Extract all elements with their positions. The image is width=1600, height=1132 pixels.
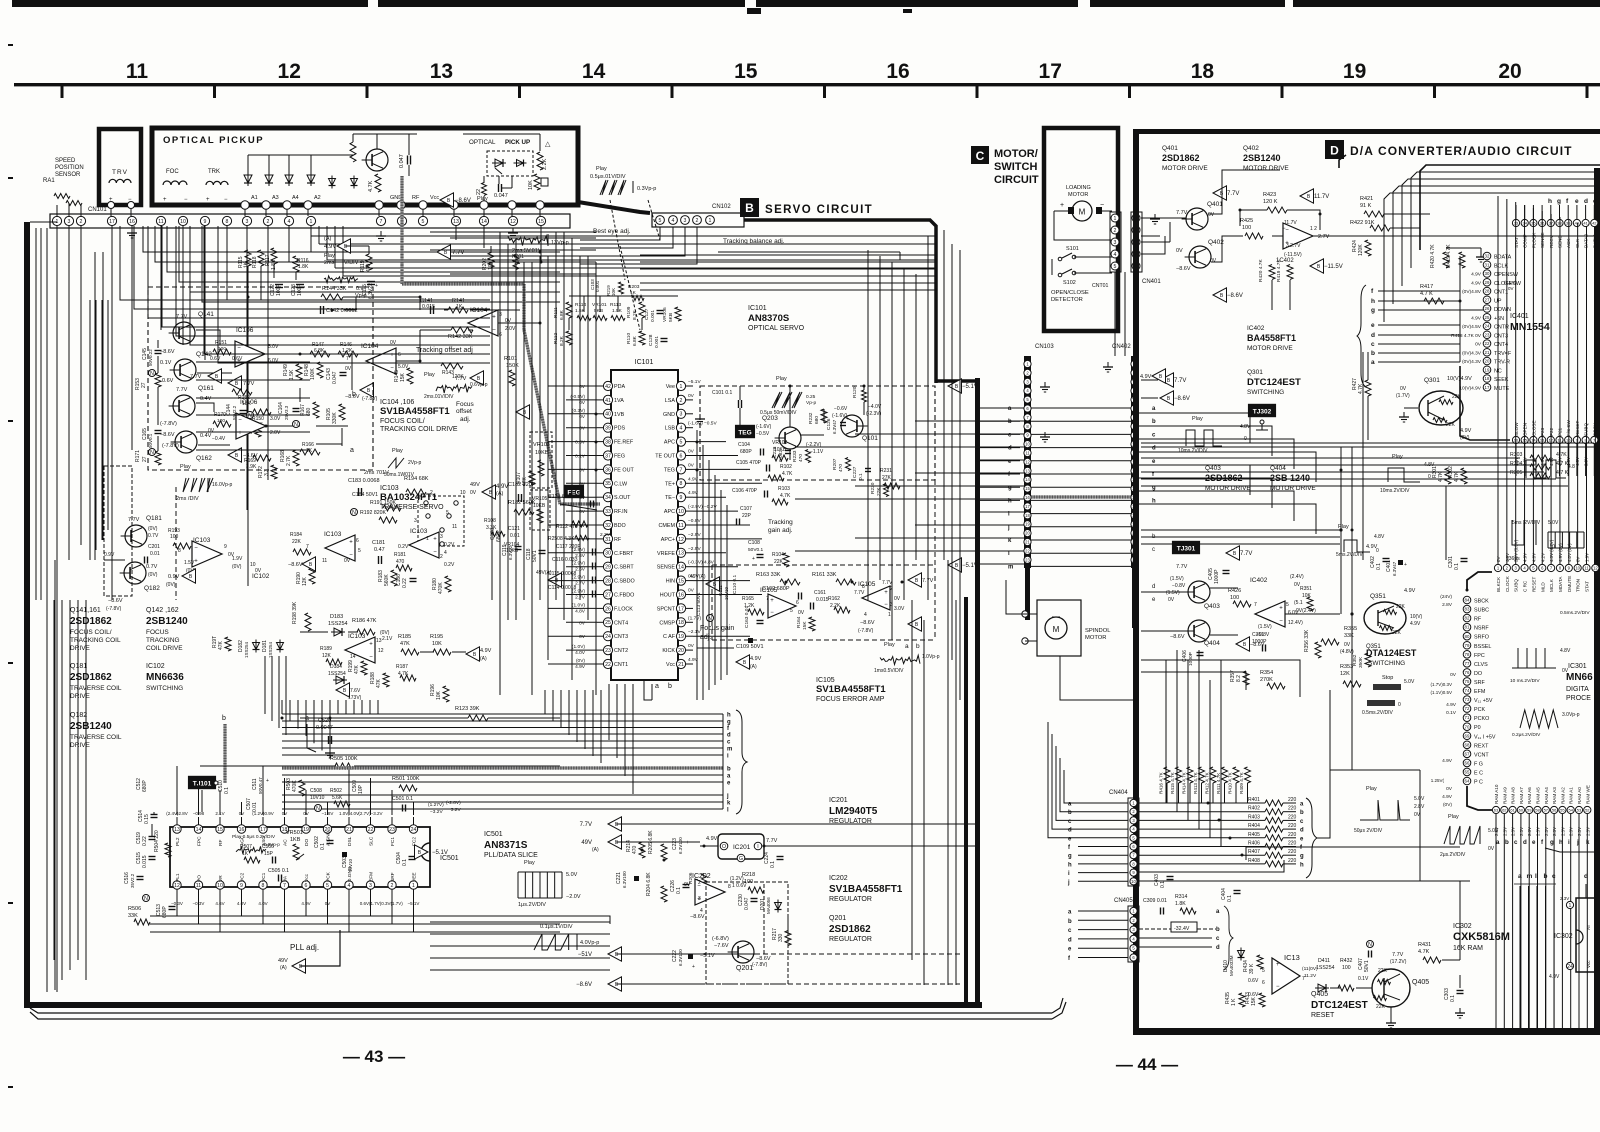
pin IC101-9 TE&#8722; [676, 493, 685, 502]
svg-text:R351: R351 [1300, 586, 1312, 592]
op-amp IC104-2 [468, 310, 498, 336]
svg-text:C501 0.1: C501 0.1 [392, 796, 413, 802]
wire [915, 274, 917, 560]
svg-text:7: 7 [380, 219, 383, 225]
wire [960, 823, 975, 825]
pin IC501-13 [173, 825, 181, 833]
svg-text:27K: 27K [882, 475, 892, 481]
wire [693, 441, 726, 443]
svg-text:(0V)4.3V: (0V)4.3V [1462, 350, 1482, 356]
pin IC101-22 CNT1 [603, 659, 612, 668]
wire [35, 228, 37, 600]
svg-text:10: 10 [460, 490, 466, 496]
wire [915, 472, 1024, 474]
pin CN101-9 [200, 216, 209, 225]
svg-text:0.001: 0.001 [650, 310, 656, 322]
svg-text:+: + [846, 416, 849, 422]
svg-text:10(V)4.9V: 10(V)4.9V [1459, 385, 1481, 391]
dashed line [175, 487, 177, 600]
wire [498, 176, 500, 184]
svg-text:KICK: KICK [662, 648, 675, 654]
svg-text:11: 11 [126, 60, 149, 83]
svg-text:3.3K: 3.3K [486, 525, 497, 531]
svg-text:1.9V: 1.9V [232, 556, 243, 562]
svg-text:7.7V: 7.7V [766, 838, 778, 844]
dashed net [763, 884, 765, 954]
svg-text:3.9K: 3.9K [246, 464, 257, 470]
pad [508, 201, 516, 209]
svg-text:N: N [144, 896, 148, 902]
diode [353, 176, 355, 189]
pin CN103-6 [1024, 405, 1031, 412]
pin CN103-18 [1024, 512, 1031, 519]
svg-text:12: 12 [510, 219, 516, 225]
svg-text:15: 15 [734, 60, 758, 83]
svg-text:Q182: Q182 [144, 585, 160, 592]
svg-text:−8.6V: −8.6V [1174, 396, 1190, 402]
flag 7.7V [908, 573, 922, 587]
wire [196, 449, 310, 451]
svg-text:7.7V: 7.7V [580, 822, 592, 828]
svg-text:560K: 560K [384, 574, 390, 586]
pin IC301-55 [1559, 806, 1566, 813]
svg-text:15K: 15K [802, 621, 808, 630]
svg-text:SPEED: SPEED [55, 158, 76, 164]
svg-text:PCK: PCK [1474, 707, 1485, 713]
wire [1515, 444, 1517, 476]
wire [241, 898, 243, 916]
label FEG tag [564, 485, 584, 498]
pin IC301-59 [1526, 806, 1533, 813]
contact [426, 514, 430, 518]
svg-text:SUBQ: SUBQ [1514, 579, 1519, 592]
wire [305, 700, 307, 736]
svg-text:TRV-R: TRV-R [1494, 360, 1510, 366]
wire [377, 700, 379, 714]
pin IC501-23 [388, 825, 396, 833]
svg-text:C117 220P: C117 220P [556, 544, 581, 550]
pin IC401-31 BCLK [1483, 261, 1491, 269]
svg-text:IC401: IC401 [1510, 313, 1529, 320]
svg-text:6: 6 [680, 453, 683, 459]
wire [1576, 444, 1578, 476]
pin CN404-6 [1130, 843, 1137, 850]
junction [696, 469, 699, 472]
svg-text:0V: 0V [894, 596, 901, 602]
wire [789, 386, 791, 427]
svg-text:4.9V: 4.9V [1442, 758, 1453, 764]
wire [176, 226, 490, 336]
svg-text:11: 11 [1584, 566, 1589, 571]
pin IC101-15 HIN [676, 576, 685, 585]
wire h [1078, 863, 1128, 865]
wire [587, 256, 589, 620]
svg-text:0.3Vp-p: 0.3Vp-p [637, 186, 656, 192]
pin IC301-71 PCKO [1463, 714, 1471, 722]
wire [1198, 649, 1200, 651]
wire [579, 256, 581, 600]
wire [342, 226, 344, 276]
pin IC101-35 C.LW [603, 479, 612, 488]
svg-text:(A): (A) [750, 664, 757, 670]
pin CN103-23 [1024, 556, 1031, 563]
shield wire [223, 724, 226, 783]
svg-text:M: M [1053, 625, 1060, 634]
wire [498, 322, 540, 324]
svg-text:470: 470 [798, 454, 804, 462]
pin IC501-3 [366, 881, 374, 889]
svg-text:R218: R218 [742, 872, 755, 878]
wire [200, 765, 336, 767]
wire [616, 684, 618, 758]
svg-text:RF: RF [218, 840, 224, 846]
svg-text:R425: R425 [1240, 218, 1253, 224]
svg-text:PCK: PCK [326, 871, 332, 882]
pin CN103-7 [1024, 414, 1031, 421]
svg-text:Q401: Q401 [1162, 145, 1178, 152]
svg-text:3: 3 [1114, 240, 1117, 246]
resistor R151 100 [213, 349, 231, 355]
svg-text:SBCK: SBCK [1474, 599, 1489, 605]
svg-text:Q403: Q403 [1205, 465, 1221, 472]
svg-text:1.5K: 1.5K [289, 369, 295, 380]
wire [470, 309, 520, 311]
junction [540, 261, 543, 264]
svg-text:0V: 0V [1176, 248, 1183, 254]
wire [1165, 659, 1167, 661]
svg-text:63: 63 [1494, 807, 1499, 812]
wire a [1031, 407, 1131, 409]
svg-text:2.8V: 2.8V [1442, 602, 1453, 608]
svg-text:R401: R401 [1248, 797, 1260, 803]
wire [693, 468, 750, 470]
pin IC301-9 [1565, 564, 1572, 571]
svg-text:Play: Play [1366, 786, 1377, 792]
wire [353, 700, 355, 714]
svg-text:Q301: Q301 [1424, 377, 1440, 384]
svg-text:Play: Play [180, 464, 191, 470]
transistor Q403 [1188, 581, 1210, 603]
svg-text:l: l [1595, 839, 1597, 846]
pin IC301-62 [1501, 806, 1508, 813]
svg-text:TEG: TEG [738, 429, 751, 436]
svg-text:67: 67 [1465, 751, 1470, 756]
svg-text:VR106: VR106 [662, 307, 668, 322]
pin CN103-16 [1024, 494, 1031, 501]
wire [592, 690, 594, 756]
svg-text:−: − [184, 197, 188, 203]
wire [539, 256, 541, 600]
svg-text:R413 4.7K: R413 4.7K [1193, 771, 1198, 794]
svg-text:19: 19 [1485, 367, 1490, 372]
wire [1524, 205, 1526, 530]
svg-text:55: 55 [1560, 807, 1565, 812]
svg-text:IC302: IC302 [1554, 933, 1573, 940]
wire [305, 898, 307, 916]
svg-text:−1.1V: −1.1V [810, 449, 824, 455]
junction [1218, 819, 1221, 822]
wire [281, 700, 283, 714]
pin CN402-14 [1131, 476, 1138, 483]
wire [321, 700, 323, 751]
svg-text:22K: 22K [774, 559, 784, 565]
wire [297, 700, 299, 729]
svg-text:14: 14 [196, 827, 202, 833]
svg-text:15: 15 [538, 219, 544, 225]
pin IC401-17 MUTE [1483, 383, 1491, 391]
pad [419, 201, 427, 209]
svg-text:MOTOR: MOTOR [1085, 635, 1106, 641]
transistor Q101 [841, 415, 863, 437]
svg-text:5: 5 [659, 218, 662, 224]
svg-text:HOUT: HOUT [660, 593, 676, 599]
wire [430, 267, 596, 269]
svg-text:50ms.1W01V: 50ms.1W01V [384, 472, 415, 478]
pin CN103-17 [1024, 503, 1031, 510]
wire [863, 386, 865, 390]
junction [1229, 837, 1232, 840]
junction [851, 581, 854, 584]
pin CN404-9 [1130, 869, 1137, 876]
wire [345, 700, 347, 714]
wire [334, 226, 336, 268]
wire [1390, 227, 1420, 229]
pin CN402-16 [1131, 494, 1138, 501]
svg-text:IC104 ,106: IC104 ,106 [380, 399, 414, 406]
svg-text:1.5K: 1.5K [612, 308, 623, 314]
svg-text:(A): (A) [480, 656, 487, 662]
junction [785, 581, 788, 584]
ground [699, 414, 701, 419]
svg-text:R407: R407 [1248, 849, 1260, 855]
svg-text:Q141: Q141 [198, 311, 214, 318]
svg-text:0V: 0V [470, 490, 477, 496]
wire [337, 700, 339, 714]
svg-text:C107: C107 [740, 506, 752, 512]
svg-text:b: b [1505, 839, 1509, 846]
svg-text:100: 100 [218, 346, 226, 352]
svg-text:0V: 0V [1446, 786, 1453, 792]
svg-text:IC302: IC302 [1453, 923, 1472, 930]
svg-text:(2.4V): (2.4V) [1290, 574, 1304, 580]
wire [430, 921, 610, 923]
resistor R119 470 [366, 254, 372, 270]
svg-text:10: 10 [1131, 879, 1136, 884]
svg-text:−5.1V: −5.1V [962, 384, 978, 390]
switch S102 [1062, 269, 1072, 274]
svg-text:0V: 0V [1488, 846, 1495, 852]
wire [1139, 854, 1265, 856]
svg-text:F G: F G [1474, 761, 1483, 767]
circled N [149, 370, 156, 377]
svg-text:0V: 0V [1475, 342, 1482, 348]
svg-text:0.5ms.2V/DIV: 0.5ms.2V/DIV [1560, 610, 1590, 616]
wire [1139, 819, 1265, 821]
capacitor C142 [320, 306, 322, 314]
svg-text:STAT: STAT [1514, 237, 1519, 248]
flag -5.1V [415, 845, 429, 859]
svg-text:−0.8V: −0.8V [688, 518, 701, 524]
ground [1044, 432, 1046, 437]
svg-text:CNT1: CNT1 [614, 662, 628, 668]
svg-text:c: c [1593, 198, 1597, 205]
svg-text:S102: S102 [1063, 280, 1076, 286]
pin IC501-21 [345, 825, 353, 833]
svg-text:3: 3 [680, 412, 683, 418]
svg-text:7: 7 [766, 596, 769, 602]
pin IC401-30 OPENSW [1483, 270, 1491, 278]
svg-text:17: 17 [260, 827, 266, 833]
wire [1138, 451, 1160, 453]
svg-text:0: 0 [1428, 474, 1431, 480]
svg-text:0.5ms.2V/DIV: 0.5ms.2V/DIV [1362, 710, 1394, 716]
pin CN402-1 [1131, 360, 1138, 367]
wire [1054, 211, 1112, 240]
wire [1051, 259, 1053, 275]
svg-text:MA4056: MA4056 [766, 897, 771, 914]
wire [68, 226, 70, 560]
circled N [143, 895, 150, 902]
wire [855, 433, 1024, 435]
wire [45, 1018, 1052, 1020]
svg-text:27: 27 [142, 456, 148, 462]
wire [1283, 802, 1296, 804]
wire [1141, 236, 1165, 254]
svg-text:0V: 0V [688, 393, 695, 399]
svg-text:b: b [1544, 873, 1548, 880]
svg-text:h: h [727, 713, 731, 719]
svg-text:66: 66 [1465, 760, 1470, 765]
pin IC401-13 [1539, 436, 1546, 443]
pin IC501-2 [388, 881, 396, 889]
wire [335, 267, 935, 269]
svg-text:173V): 173V) [348, 695, 362, 701]
pad [108, 202, 115, 209]
wire [584, 690, 586, 749]
wire [1536, 886, 1538, 1028]
wire [1139, 837, 1265, 839]
svg-text:10ms.2V/DIV: 10ms.2V/DIV [1380, 488, 1410, 494]
svg-text:R415 4.7K: R415 4.7K [1170, 771, 1175, 794]
svg-text:−0.5V: −0.5V [572, 440, 585, 446]
svg-text:0V: 0V [344, 558, 351, 564]
pin IC401-20 TRV-R [1483, 357, 1491, 365]
svg-text:C127: C127 [644, 308, 650, 320]
svg-text:C RC: C RC [1523, 580, 1528, 592]
wire [580, 227, 673, 248]
svg-text:CLOCK: CLOCK [1505, 575, 1510, 592]
svg-text:4.9V: 4.9V [1442, 794, 1453, 800]
svg-text:PDS: PDS [614, 426, 625, 432]
pin CN101-3 [64, 216, 73, 225]
wire [1503, 814, 1505, 1028]
wire [1559, 444, 1561, 476]
wire [1141, 379, 1158, 381]
pin CN101-14 [479, 216, 488, 225]
brace [736, 710, 747, 814]
wire [273, 264, 275, 278]
wire [430, 957, 610, 959]
svg-text:R101: R101 [504, 356, 517, 362]
pin IC401-27 UP [1483, 296, 1491, 304]
svg-text:MA4033M: MA4033M [1229, 955, 1234, 976]
svg-text:Q141,161: Q141,161 [70, 607, 101, 614]
wire [566, 621, 597, 623]
svg-text:18: 18 [1485, 376, 1490, 381]
wire a [316, 425, 348, 427]
svg-text:m: m [727, 747, 732, 753]
svg-text:11.7V: 11.7V [1284, 220, 1297, 226]
wire [515, 238, 517, 620]
wire [580, 227, 660, 240]
ground [1044, 382, 1046, 387]
wire [30, 221, 57, 223]
svg-text:−: − [433, 550, 437, 556]
svg-text:IC402: IC402 [1250, 577, 1268, 584]
wire [566, 455, 597, 457]
pin CN102-2 [693, 216, 702, 225]
svg-text:Vcc: Vcc [1586, 960, 1591, 968]
svg-text:h: h [1371, 298, 1375, 305]
pin IC101-5 APC [676, 437, 685, 446]
svg-text:10V10: 10V10 [348, 858, 353, 872]
pin IC401-41 [1582, 219, 1589, 226]
svg-text:BA4558FT1: BA4558FT1 [1247, 333, 1296, 343]
wire [923, 620, 925, 985]
dashed net [787, 918, 789, 936]
wire [1317, 770, 1420, 838]
svg-text:6: 6 [1262, 980, 1265, 986]
resistor R142 33K [451, 327, 473, 333]
wire [693, 566, 738, 568]
pin CN103-14 [1024, 476, 1031, 483]
pin IC501-14 [194, 825, 202, 833]
svg-text:DMUTE: DMUTE [1567, 576, 1572, 592]
circled N [149, 449, 156, 456]
wire [1141, 591, 1188, 593]
svg-text:V₁₁ +5V: V₁₁ +5V [1474, 698, 1493, 704]
pin IC401-40 [1573, 219, 1580, 226]
pin CN404-2 [1130, 808, 1137, 815]
wire [1283, 863, 1296, 865]
svg-text:18: 18 [678, 620, 684, 626]
resistor Q351 22K [1384, 610, 1397, 615]
wire [196, 397, 310, 399]
svg-text:0.1: 0.1 [1160, 881, 1166, 888]
svg-text:16: 16 [1514, 437, 1519, 442]
svg-text:14: 14 [582, 60, 606, 83]
contact [447, 514, 451, 518]
wire [569, 295, 678, 297]
wire [198, 778, 200, 815]
svg-text:16: 16 [886, 60, 909, 83]
svg-text:0V: 0V [1210, 258, 1217, 264]
transistor Q351 [1364, 602, 1406, 634]
svg-text:5.0V: 5.0V [566, 872, 578, 878]
wire [1189, 783, 1191, 803]
junction [696, 441, 699, 444]
wire [855, 537, 1024, 539]
svg-text:APC: APC [664, 509, 675, 515]
wire [1512, 814, 1514, 1028]
wire [1313, 235, 1600, 237]
svg-text:12: 12 [678, 537, 684, 543]
transistor Q201 [732, 941, 754, 963]
pin CN405-6 [1130, 954, 1137, 961]
svg-text:FOCUS COIL/: FOCUS COIL/ [380, 418, 425, 425]
op-amp IC106-2 [236, 413, 266, 439]
svg-text:220: 220 [1288, 797, 1297, 803]
